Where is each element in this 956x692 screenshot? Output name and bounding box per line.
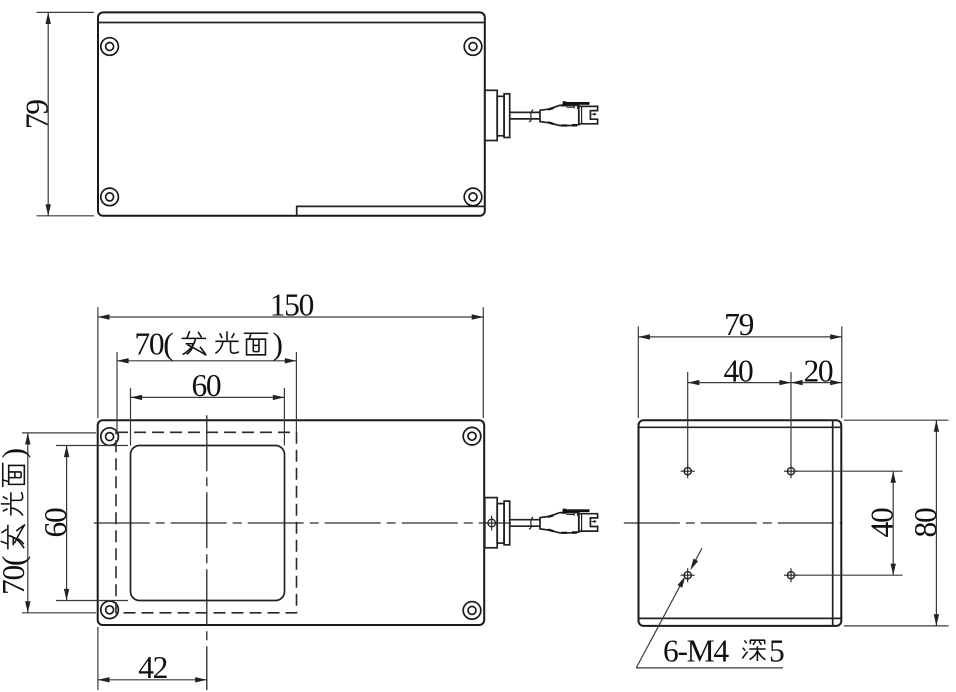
- svg-text:60: 60: [38, 508, 73, 537]
- enclosure body: [98, 12, 485, 215]
- connector side view: [485, 90, 598, 140]
- dim 60 horizontal: [131, 368, 285, 446]
- leader 6-M4 deep5: [636, 548, 784, 668]
- lid seam line: [98, 22, 485, 24]
- svg-text:40: 40: [724, 354, 753, 389]
- dim 42: [98, 627, 207, 690]
- svg-text:70(: 70(: [0, 556, 31, 595]
- svg-text:20: 20: [803, 354, 832, 389]
- connector flange hole mark: [488, 516, 496, 531]
- enclosure front face: [98, 420, 485, 625]
- rear bottom seam: [639, 617, 842, 619]
- screw bottom-right: [464, 188, 482, 206]
- svg-text:5: 5: [769, 634, 784, 669]
- hole top-left: [681, 464, 695, 478]
- bottom step notch: [297, 206, 485, 215]
- svg-text:79: 79: [724, 307, 753, 342]
- emitting area 60x60: [131, 446, 285, 601]
- screw bottom-left: [101, 601, 119, 619]
- dim 60 vertical left: [38, 446, 128, 601]
- screw top-left: [101, 38, 119, 56]
- hole top-right: [784, 464, 798, 478]
- dim 79 (side view height): [20, 12, 95, 215]
- svg-text:): ): [273, 327, 283, 362]
- screw top-left: [101, 428, 119, 446]
- rear right seam: [832, 420, 834, 626]
- dim 79 (rear width): [638, 307, 842, 418]
- dim 40 (rear top): [688, 354, 791, 468]
- dim 80 (rear far right): [844, 420, 949, 626]
- svg-text:40: 40: [865, 508, 900, 537]
- hole bottom-right: [784, 568, 798, 582]
- hole bottom-left: [681, 568, 695, 582]
- emitting window 70x70 (dashed): [116, 432, 297, 613]
- dim 70(发光面) vertical left: [0, 433, 96, 613]
- svg-text:80: 80: [908, 508, 943, 537]
- connector side view (front): [485, 498, 598, 548]
- svg-text:42: 42: [138, 650, 167, 685]
- horizontal centerline: [94, 522, 511, 524]
- screw top-right: [463, 427, 481, 445]
- dim 150: [98, 288, 483, 419]
- svg-text:150: 150: [270, 288, 314, 323]
- svg-text:60: 60: [191, 368, 220, 403]
- dim 20: [791, 354, 842, 389]
- screw bottom-left: [101, 188, 119, 206]
- svg-text:6-M4: 6-M4: [663, 634, 729, 669]
- screw bottom-right: [463, 602, 481, 620]
- rear body: [639, 420, 842, 626]
- svg-text:79: 79: [20, 100, 55, 129]
- svg-text:): ): [0, 448, 31, 458]
- horizontal centerline (right of connector): [624, 522, 842, 524]
- svg-text:70(: 70(: [134, 327, 173, 362]
- vertical centerline: [206, 415, 208, 690]
- screw top-right: [464, 38, 482, 56]
- rear top seam: [639, 426, 842, 428]
- dim 40 (rear right vertical): [795, 471, 903, 575]
- dim 70(发光面) horizontal: [117, 327, 296, 433]
